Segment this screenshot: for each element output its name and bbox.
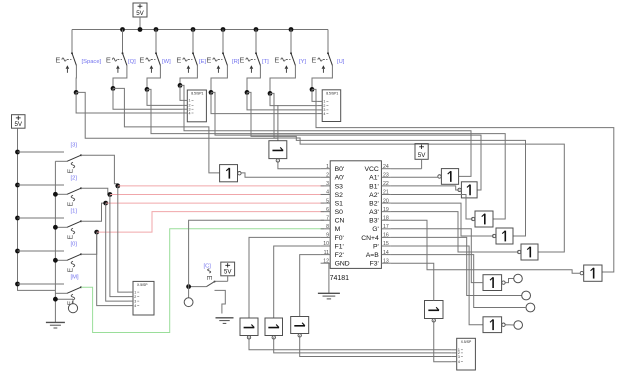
- node rail-left y185: [15, 183, 20, 188]
- wire P2 to XLA3: [110, 195, 128, 297]
- svg-text:1: 1: [189, 99, 191, 103]
- wire S0 net (pink): [97, 212, 324, 233]
- wire U11 to probe X6: [505, 324, 513, 326]
- wire S2 net (pink): [110, 194, 324, 196]
- svg-text:E: E: [205, 275, 212, 280]
- wire pin15 to U11: [391, 246, 483, 325]
- probe X5: [526, 303, 535, 312]
- node rail-left y284: [15, 282, 20, 287]
- svg-text:E: E: [106, 56, 111, 65]
- svg-text:VCC: VCC: [364, 166, 378, 173]
- node P3: [115, 184, 120, 189]
- svg-text:5V: 5V: [418, 152, 426, 159]
- svg-text:1: 1: [326, 164, 329, 170]
- node N3: [145, 87, 150, 92]
- svg-text:F1ʹ: F1ʹ: [335, 242, 344, 250]
- svg-text:E: E: [311, 56, 316, 65]
- wire common [1]: [55, 226, 67, 228]
- node rail junction x122.5: [120, 27, 125, 32]
- wire N5 to U5 input (B1): [211, 92, 481, 190]
- svg-text:[M]: [M]: [71, 275, 79, 281]
- power source V2 5V (left): [12, 115, 26, 152]
- svg-text:Gʹ: Gʹ: [372, 225, 379, 233]
- svg-text:[Space]: [Space]: [82, 59, 102, 65]
- wire N3 to XLA1 pin2: [147, 89, 182, 105]
- svg-text:S0: S0: [335, 209, 344, 216]
- probe X2: [184, 287, 193, 307]
- wire common [M]: [55, 292, 67, 294]
- wire U8 to pin19: [391, 212, 519, 252]
- power source V1 5V (top): [133, 3, 147, 30]
- svg-text:B1ʹ: B1ʹ: [369, 182, 379, 190]
- wire N7 to XLA2 pin2: [270, 93, 317, 105]
- inverter U12 (F3): [425, 301, 444, 323]
- wire U14 to XLA4: [274, 337, 452, 353]
- svg-text:E: E: [239, 56, 244, 65]
- svg-text:GND: GND: [335, 261, 350, 268]
- svg-text:[2]: [2]: [71, 176, 78, 182]
- node N-CN: [186, 284, 191, 289]
- svg-text:B0ʹ: B0ʹ: [335, 165, 345, 173]
- wire U4 to pin23: [391, 175, 440, 178]
- wire pin11 F2: [300, 255, 321, 317]
- svg-text:X.5/SP: X.5/SP: [137, 283, 148, 287]
- probe X6: [514, 321, 523, 330]
- svg-text:A0ʹ: A0ʹ: [335, 174, 345, 182]
- wire N8 to U9 input (B3): [312, 89, 614, 272]
- svg-text:4: 4: [189, 111, 191, 115]
- wire U15 to XLA4: [300, 335, 452, 356]
- wire CN common: [189, 286, 207, 288]
- left 5V rail wire: [18, 152, 56, 290]
- switch S8 key [U]: [311, 30, 344, 73]
- svg-text:23: 23: [383, 172, 389, 178]
- wire common [3]: [55, 160, 67, 162]
- switch S5 key [R]: [206, 30, 239, 73]
- wire S1 net (pink): [106, 202, 324, 204]
- switch [C]: [204, 264, 216, 287]
- node N8: [310, 87, 315, 92]
- inverter U14 (F1): [265, 318, 283, 339]
- wire [1] output: [81, 203, 106, 221]
- svg-text:24: 24: [383, 164, 389, 170]
- gate U10 (G flag): [483, 275, 505, 291]
- inverter U3 (A0 feed): [220, 165, 241, 182]
- svg-text:B2ʹ: B2ʹ: [369, 199, 379, 207]
- gate U11 (A=B flag): [483, 317, 505, 333]
- logic analyzer XLA1: [182, 90, 206, 122]
- probe X4: [522, 291, 531, 300]
- wire N3 to U6 input (A2): [147, 89, 505, 219]
- wire pin24 VCC: [391, 168, 422, 170]
- wire N8 to XLA2 pin1: [312, 89, 317, 101]
- wire pin12 GND: [328, 263, 330, 293]
- wire N1 to U2 input (B0): [76, 92, 278, 140]
- wire feed [2]: [18, 184, 65, 186]
- svg-text:16: 16: [383, 233, 389, 239]
- svg-text:[E]: [E]: [199, 59, 206, 65]
- logic analyzer XLA3: [128, 281, 154, 315]
- wire N2 to XLA1 pin3: [113, 88, 182, 109]
- buffer U9 (B3): [580, 265, 602, 281]
- wire [3] output: [81, 155, 118, 186]
- buffer U4 (A1): [438, 169, 459, 185]
- inverter U15 (F2): [291, 317, 309, 338]
- wire feed [3]: [18, 151, 65, 153]
- svg-text:3: 3: [458, 355, 460, 359]
- wire S3 output: [147, 65, 160, 89]
- buffer U5 (B1): [458, 182, 477, 198]
- node P2: [108, 192, 113, 197]
- node rail-V1: [138, 27, 143, 32]
- switch [2]: [67, 176, 82, 207]
- svg-text:22: 22: [383, 181, 389, 187]
- wire S6 output: [247, 65, 260, 92]
- power source V4 5V (VCC): [415, 144, 428, 169]
- svg-text:B3ʹ: B3ʹ: [369, 217, 379, 225]
- svg-text:CN: CN: [335, 218, 345, 225]
- IC U1 74181 ALU: [321, 161, 391, 282]
- wire U13 to XLA4: [249, 337, 452, 350]
- wire pin9 F0: [249, 237, 321, 318]
- svg-text:20: 20: [383, 198, 389, 204]
- svg-text:[Y]: [Y]: [299, 59, 306, 65]
- svg-text:5V: 5V: [136, 10, 144, 17]
- svg-text:1: 1: [134, 290, 136, 294]
- svg-text:E: E: [55, 56, 60, 65]
- wire M net (green): [81, 229, 324, 333]
- svg-text:E: E: [67, 169, 74, 174]
- wire pin13 to U12: [391, 263, 434, 300]
- node P0: [94, 230, 99, 235]
- wire N2 to U3 input (A0): [113, 88, 220, 172]
- node bus y185: [53, 192, 58, 197]
- svg-text:3: 3: [134, 299, 136, 303]
- wire CN to chip: [189, 220, 324, 286]
- wire U5 to pin22: [391, 186, 460, 190]
- switch [1]: [67, 209, 82, 240]
- node N7: [268, 91, 273, 96]
- power source V3 5V (carry): [215, 262, 235, 281]
- svg-text:5V: 5V: [14, 121, 22, 128]
- wire feed [M]: [18, 283, 65, 285]
- ground GND2 (carry): [216, 318, 234, 324]
- probe X3: [514, 274, 523, 283]
- switch S2 key [Q]: [106, 30, 136, 73]
- svg-text:21: 21: [383, 190, 389, 196]
- logic analyzer XLA2: [317, 90, 341, 122]
- wire [0] output: [81, 232, 97, 254]
- svg-text:15: 15: [383, 241, 389, 247]
- svg-text:18: 18: [383, 215, 389, 221]
- wire common [0]: [55, 259, 67, 261]
- svg-text:17: 17: [383, 224, 389, 230]
- ground bus wire (left): [54, 161, 56, 322]
- svg-text:E: E: [139, 56, 144, 65]
- node rail junction x256: [254, 27, 259, 32]
- svg-text:5V: 5V: [224, 269, 232, 276]
- svg-text:[U]: [U]: [337, 59, 345, 65]
- node N1: [74, 90, 79, 95]
- wire pin16 CN+4 to probe X4: [391, 237, 522, 295]
- switch S7 key [Y]: [274, 30, 306, 73]
- wire U3 out to pin2: [241, 173, 320, 177]
- node rail junction x193: [191, 27, 196, 32]
- svg-text:74181: 74181: [330, 275, 350, 282]
- svg-text:6: 6: [326, 207, 329, 213]
- node rail-left y218: [15, 216, 20, 221]
- svg-text:A3ʹ: A3ʹ: [369, 208, 379, 216]
- svg-text:2: 2: [326, 172, 329, 178]
- wire N6 to XLA2 pin3: [247, 92, 317, 110]
- svg-text:5: 5: [326, 198, 329, 204]
- svg-text:X.5/SP: X.5/SP: [461, 340, 472, 344]
- svg-text:S1: S1: [335, 200, 344, 207]
- svg-text:12: 12: [323, 258, 329, 264]
- wire N7 to U8 input (A3): [270, 93, 564, 252]
- wire N4 to XLA1 pin1: [180, 85, 182, 100]
- svg-text:E: E: [67, 202, 74, 207]
- svg-text:F2ʹ: F2ʹ: [335, 251, 344, 259]
- svg-text:4: 4: [458, 360, 460, 364]
- svg-text:19: 19: [383, 207, 389, 213]
- switch [0]: [67, 242, 82, 273]
- svg-text:8.5/SP1: 8.5/SP1: [326, 91, 338, 95]
- node P1: [103, 201, 108, 206]
- node rail-left y152: [15, 150, 20, 155]
- node N4: [178, 83, 183, 88]
- switch S1 key [Space]: [55, 30, 101, 73]
- svg-text:S3: S3: [335, 183, 344, 190]
- wire S2 output: [113, 65, 127, 88]
- svg-text:9: 9: [326, 233, 329, 239]
- wire N6 to U7 input (B2): [247, 92, 526, 236]
- ground GND3 (chip): [318, 293, 340, 299]
- svg-text:4: 4: [326, 190, 329, 196]
- node bus y251: [53, 258, 58, 263]
- node bus-probe: [53, 297, 58, 302]
- probe X1: [55, 299, 77, 313]
- wire U7 to pin20: [391, 203, 495, 236]
- svg-text:A1ʹ: A1ʹ: [369, 174, 379, 182]
- wire S4 output: [180, 65, 197, 85]
- switch [3]: [67, 143, 82, 174]
- wire pin17 to U10: [391, 229, 483, 283]
- svg-text:4: 4: [323, 112, 325, 116]
- svg-text:E: E: [206, 56, 211, 65]
- svg-text:E: E: [67, 235, 74, 240]
- switch S6 key [T]: [239, 30, 269, 73]
- svg-text:14: 14: [383, 250, 389, 256]
- svg-text:F3ʹ: F3ʹ: [370, 260, 379, 268]
- svg-text:[T]: [T]: [262, 59, 269, 65]
- wire P3 to XLA3: [118, 186, 128, 292]
- wire feed [1]: [18, 217, 65, 219]
- top 5V rail wire: [72, 29, 328, 31]
- node rail-left y251: [15, 249, 20, 254]
- svg-text:A2ʹ: A2ʹ: [369, 191, 379, 199]
- svg-text:[1]: [1]: [71, 209, 78, 215]
- wire S7 output: [270, 65, 295, 93]
- svg-text:[C]: [C]: [204, 264, 212, 270]
- wire U2 out to pin1: [278, 161, 321, 169]
- switch S4 key [E]: [176, 30, 206, 73]
- svg-text:A=B: A=B: [366, 252, 380, 259]
- buffer U6 (A2): [471, 211, 493, 227]
- switch [M]: [67, 275, 82, 306]
- wire common [2]: [55, 193, 67, 195]
- svg-text:2: 2: [134, 295, 136, 299]
- buffer U8 (A3): [517, 244, 538, 260]
- node rail junction x291: [289, 27, 294, 32]
- svg-text:E: E: [67, 268, 74, 273]
- svg-text:F0ʹ: F0ʹ: [335, 234, 344, 242]
- wire N5 to XLA2 pin4: [211, 92, 317, 113]
- wire U6 to pin21: [391, 195, 474, 220]
- svg-text:4: 4: [134, 304, 136, 308]
- buffer U7 (B2): [492, 228, 513, 244]
- svg-text:13: 13: [383, 258, 389, 264]
- svg-text:CN+4: CN+4: [361, 235, 379, 242]
- inverter U2 (B0 feed): [269, 141, 287, 163]
- wire [C] throw2 to ground: [215, 290, 226, 313]
- svg-text:8.5/SP1: 8.5/SP1: [191, 92, 203, 96]
- svg-text:S2: S2: [335, 192, 344, 199]
- switch S3 key [W]: [139, 30, 171, 73]
- wire pin14 P to probe X5: [391, 255, 526, 308]
- wire P0 to XLA3: [97, 232, 128, 306]
- node rail junction x223: [221, 27, 226, 32]
- svg-text:3: 3: [326, 181, 329, 187]
- wire [2] output: [81, 188, 110, 194]
- ground GND1 (left): [46, 322, 65, 328]
- wire S1 output: [75, 65, 77, 92]
- svg-text:7: 7: [326, 215, 329, 221]
- wire U10 to probe X3: [505, 279, 514, 283]
- logic analyzer XLA4: [452, 338, 476, 370]
- node rail junction x156: [154, 27, 159, 32]
- node N6: [245, 90, 250, 95]
- wire S3 net (pink): [118, 185, 324, 187]
- wire U12 to XLA4: [434, 320, 452, 361]
- inverter U13 (F0): [240, 318, 258, 339]
- wire S5 output: [211, 65, 227, 92]
- node N5: [209, 90, 214, 95]
- wire pin10 F1: [274, 246, 321, 318]
- wire N1 to XLA1 pin4: [76, 92, 182, 113]
- svg-text:[3]: [3]: [71, 143, 78, 149]
- svg-text:10: 10: [323, 241, 329, 247]
- node N2: [111, 86, 116, 91]
- wire U9 to pin18: [391, 220, 580, 273]
- wire feed [0]: [18, 250, 65, 252]
- svg-text:M: M: [335, 226, 341, 233]
- wire N4 to U4 input (A1): [180, 85, 471, 176]
- svg-text:11: 11: [324, 250, 329, 256]
- node bus y218: [53, 225, 58, 230]
- svg-text:[0]: [0]: [71, 242, 78, 248]
- svg-text:E: E: [274, 56, 279, 65]
- svg-text:[Q]: [Q]: [128, 59, 136, 65]
- wire S8 output: [312, 65, 332, 89]
- wire P1 to XLA3: [106, 203, 128, 301]
- svg-text:8: 8: [326, 224, 329, 230]
- svg-text:Pʹ: Pʹ: [373, 242, 379, 250]
- svg-text:[W]: [W]: [162, 59, 171, 65]
- svg-text:E: E: [176, 56, 181, 65]
